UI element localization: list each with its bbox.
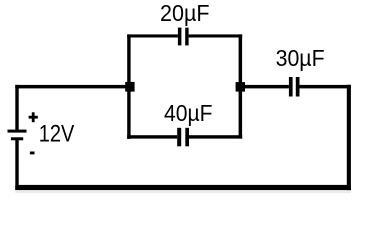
wire: bottom branch left segment	[127, 135, 177, 138]
capacitor C1 20µF	[178, 28, 189, 46]
wire: left vertical upper segment (into battery + plate)	[15, 85, 18, 130]
node B (right junction)	[236, 82, 245, 92]
battery V1 12V (plates)	[8, 130, 27, 141]
wire: inner left vertical (top branch to bottom branch through node A)	[127, 34, 130, 138]
wire: inner right vertical (top branch to bottom branch through node B)	[239, 34, 243, 138]
wire: left vertical lower segment (battery - plate to bottom wire)	[15, 140, 18, 190]
wire: right horizontal right segment (C3 to right vertical)	[300, 85, 351, 89]
label: battery polarity +	[29, 112, 38, 122]
wire: right vertical (C3 branch down to bottom wire)	[347, 85, 351, 190]
label: value 20µF	[160, 0, 210, 26]
capacitor C3 30µF	[289, 77, 300, 97]
svg-text:40µF: 40µF	[164, 100, 213, 126]
wire: bottom horizontal return	[15, 185, 351, 193]
wire: right horizontal left segment (node B to C3)	[239, 85, 289, 89]
wire: bottom branch right segment	[189, 135, 242, 138]
wire: top branch right segment	[189, 34, 243, 37]
svg-text:30µF: 30µF	[276, 45, 325, 71]
capacitor C2 40µF	[177, 128, 189, 147]
node A (left junction)	[125, 82, 134, 92]
label: value 12V	[39, 121, 75, 148]
wire: top branch left segment	[127, 34, 178, 37]
wire: top-left horizontal (battery + terminal to node A)	[15, 85, 130, 89]
label: value 40µF	[164, 100, 213, 126]
label: value 30µF	[276, 45, 325, 71]
svg-text:20µF: 20µF	[160, 0, 210, 26]
label: battery polarity -	[30, 152, 35, 155]
svg-text:12V: 12V	[39, 121, 75, 148]
